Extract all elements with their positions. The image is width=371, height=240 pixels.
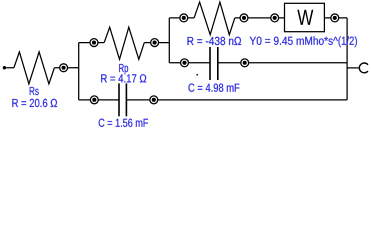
node W left <box>271 14 279 22</box>
label Rs <box>30 87 39 95</box>
resistor R (R = -438 nOhm) <box>194 2 235 35</box>
wire left rail to C1 <box>79 99 119 101</box>
wire middle rail to R2 <box>169 17 194 19</box>
node R2 right <box>240 14 248 22</box>
output terminal (open circle) <box>359 63 368 73</box>
node C1 right <box>150 96 158 104</box>
wire Rp to middle rail <box>144 42 169 44</box>
node after Rs <box>60 64 68 72</box>
wire middle rail to C2 <box>169 62 210 64</box>
node C2 left <box>181 59 189 67</box>
wire W box to right rail <box>324 17 347 19</box>
capacitor C1 right plate <box>125 83 127 116</box>
label Rp <box>119 64 128 74</box>
capacitor C2 left plate <box>209 47 211 80</box>
connection nodes <box>60 14 339 104</box>
wire R2 to W box <box>235 17 285 19</box>
capacitor C2 right plate <box>217 47 219 80</box>
resistor Rs <box>14 52 55 84</box>
W box letter <box>297 10 313 25</box>
label R = -438 nOhm <box>188 37 242 45</box>
input terminal dot <box>3 66 6 69</box>
label C = 1.56 mF <box>99 119 148 127</box>
node C2 right <box>241 59 249 67</box>
stray mark <box>196 74 198 76</box>
label C = 4.98 mF <box>189 84 240 92</box>
node Rp right <box>151 39 159 47</box>
wire output stub <box>347 67 359 69</box>
node Rp left <box>90 39 98 47</box>
node W right <box>331 14 339 22</box>
wire Rs to node A <box>54 67 78 69</box>
node R2 left <box>180 14 188 22</box>
resistor Rp <box>104 27 144 59</box>
wire left rail to Rp <box>79 42 105 44</box>
right rail wire <box>346 18 348 100</box>
left rail wire <box>78 43 80 100</box>
wire input to Rs <box>6 67 14 69</box>
label R = 20.6 Ohm <box>12 99 57 107</box>
capacitor C1 left plate <box>118 83 120 116</box>
wire C2 to right rail <box>218 62 347 64</box>
label R = 4.17 Ohm <box>101 74 146 82</box>
wire C1 to right rail (bottom return) <box>126 99 347 101</box>
label Y0 = 9.45 mMho*s^(1/2) <box>250 36 338 45</box>
node C1 left <box>90 96 98 104</box>
middle rail wire <box>168 18 170 63</box>
Warburg element W box <box>285 3 325 31</box>
